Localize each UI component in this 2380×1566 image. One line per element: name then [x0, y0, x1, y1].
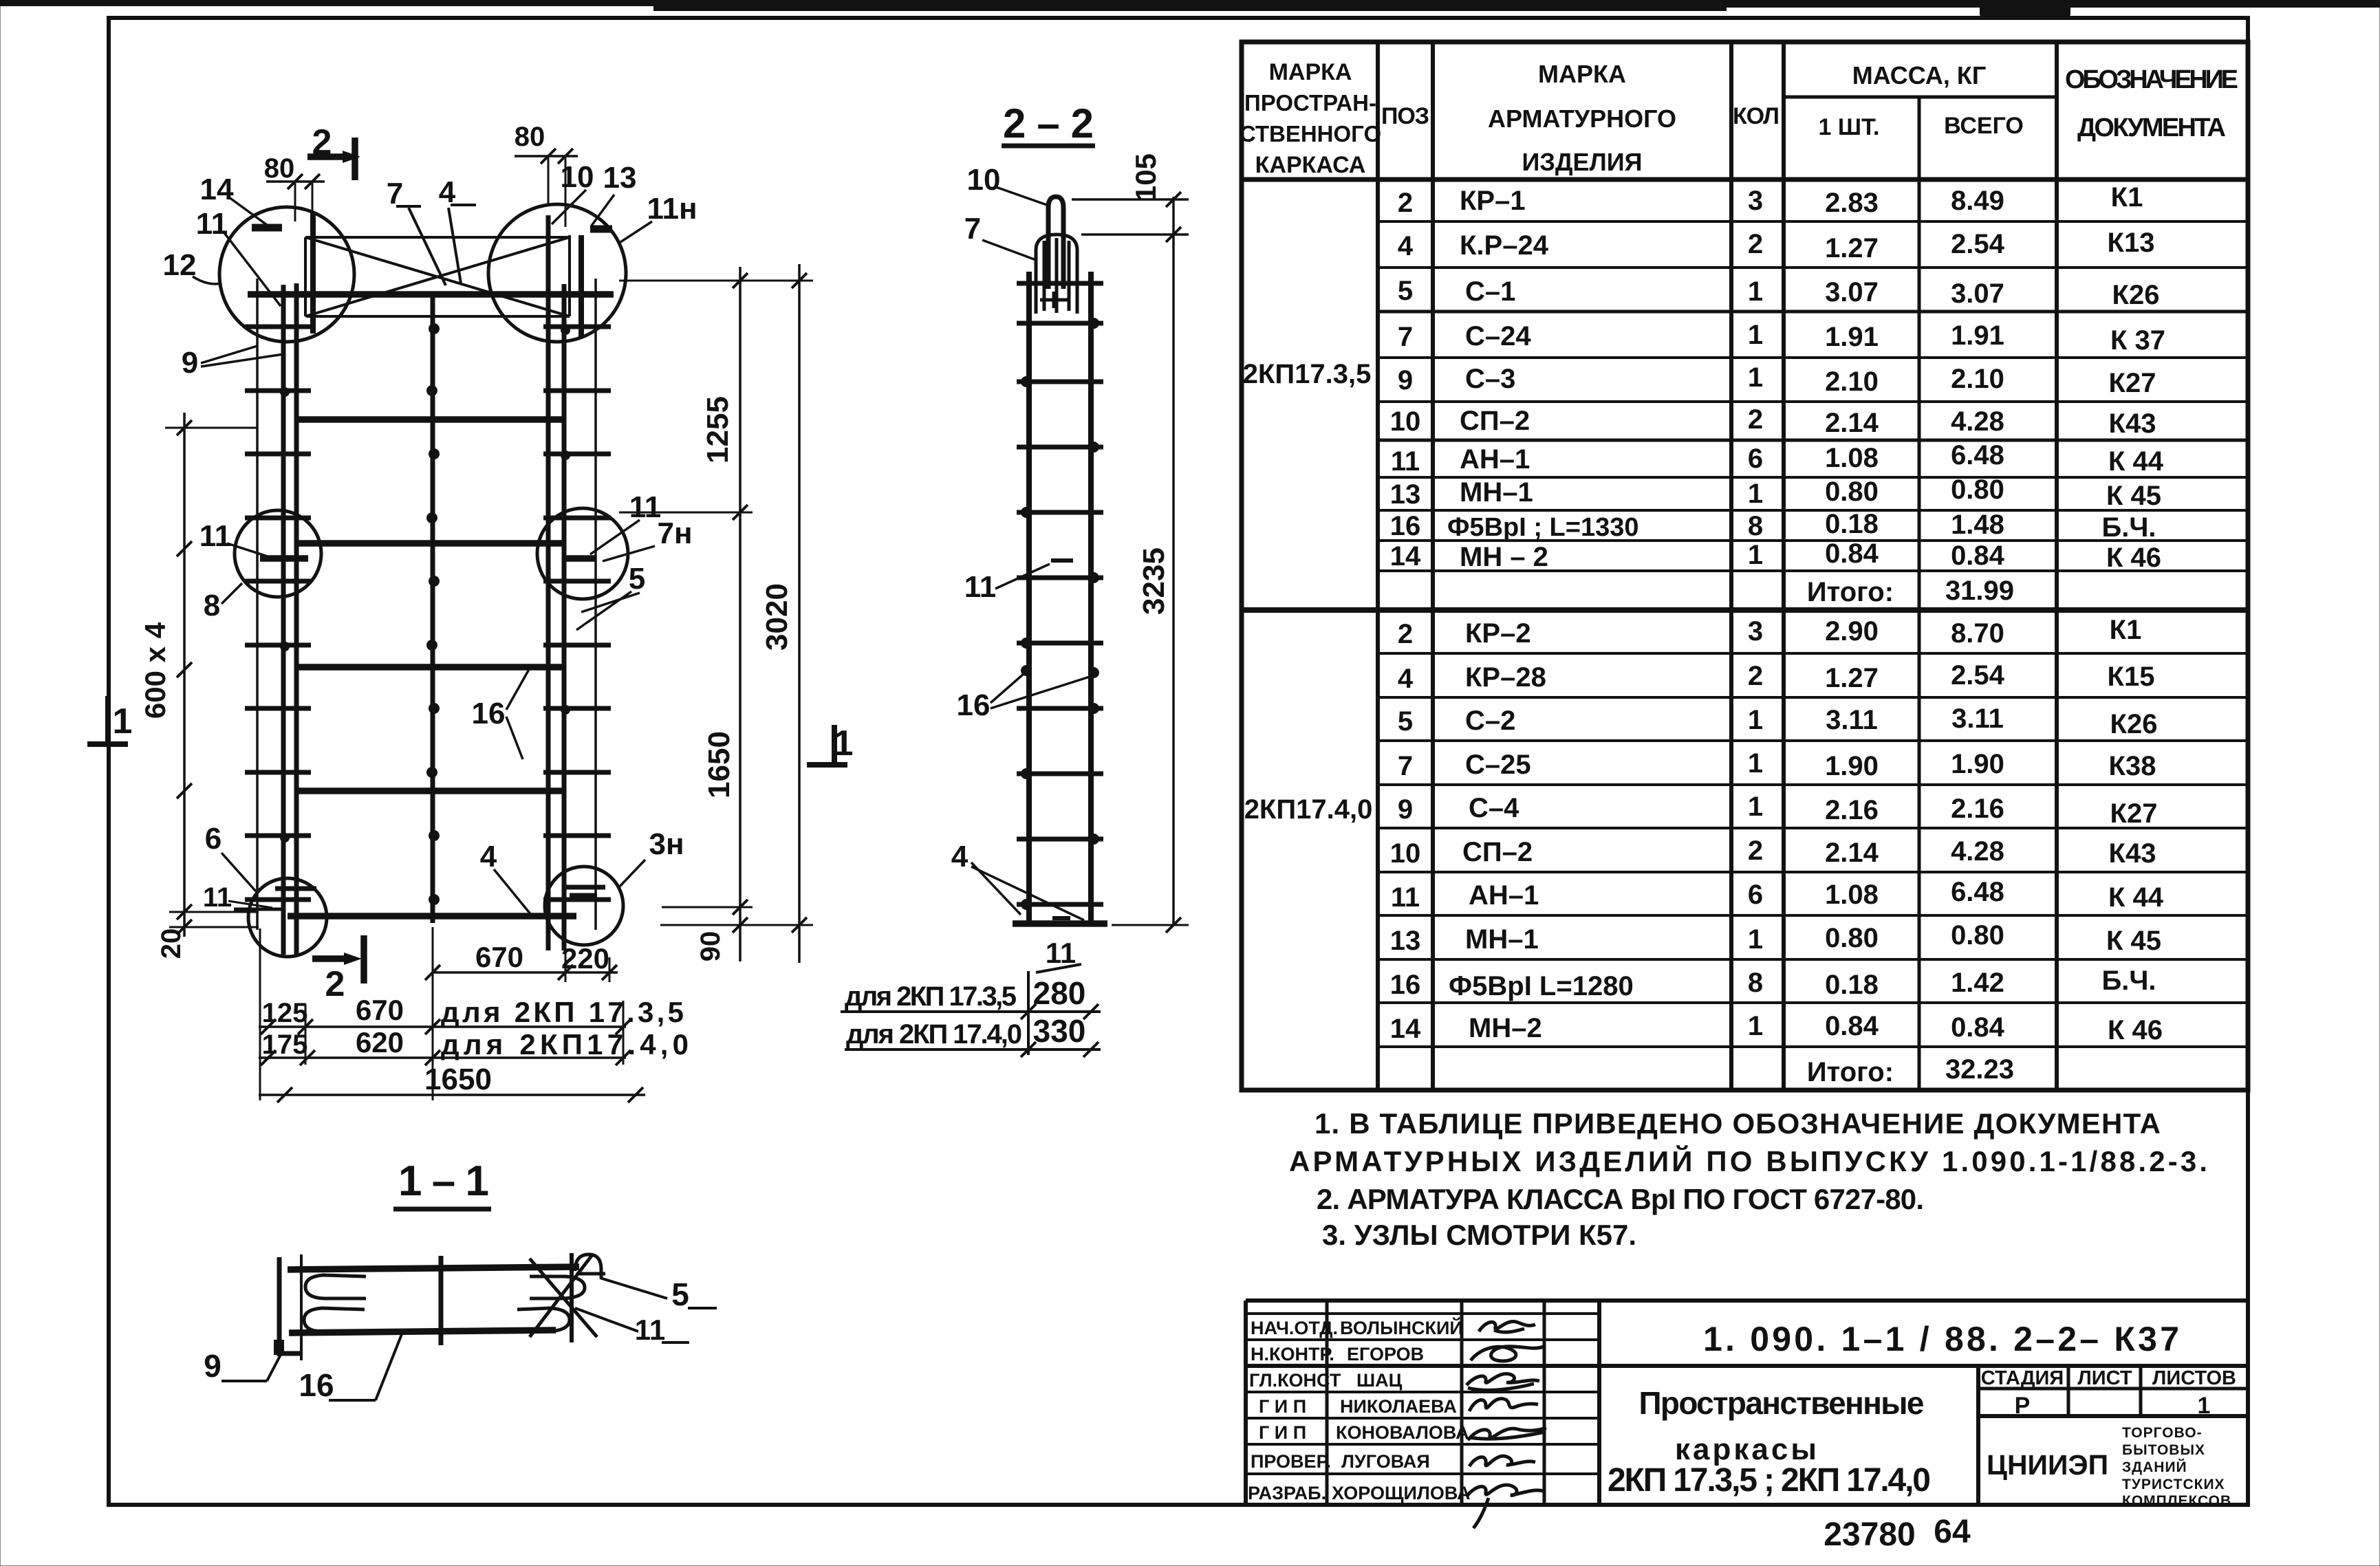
table column line: left of ОБОЗНАЧЕНИЕ	[2055, 42, 2059, 1090]
svg-text:ШАЦ: ШАЦ	[1356, 1370, 1403, 1391]
signatures (scribbles)	[1467, 1322, 1546, 1528]
detail circle bottom-right	[545, 867, 623, 945]
svg-text:3.07: 3.07	[1825, 277, 1879, 307]
svg-text:8: 8	[1748, 968, 1763, 998]
svg-text:2. АРМАТУРА КЛАССА ВрI ПО ГОСТ: 2. АРМАТУРА КЛАССА ВрI ПО ГОСТ 6727-80.	[1317, 1183, 1924, 1215]
svg-text:11: 11	[1046, 937, 1076, 969]
svg-text:5: 5	[671, 1276, 689, 1312]
ladder left rail	[1026, 272, 1032, 925]
left rail bar 1	[281, 285, 286, 955]
svg-text:0.84: 0.84	[1825, 539, 1879, 569]
svg-text:1: 1	[1748, 748, 1763, 779]
title block outer left line	[1244, 1301, 1248, 1505]
svg-text:11: 11	[196, 207, 228, 241]
svg-text:2: 2	[1398, 188, 1413, 218]
svg-text:11: 11	[635, 1314, 665, 1346]
svg-text:10: 10	[1390, 838, 1421, 869]
svg-text:С–1: С–1	[1465, 276, 1515, 307]
svg-text:125: 125	[262, 998, 308, 1028]
svg-text:8: 8	[1748, 511, 1763, 541]
svg-text:С–24: С–24	[1465, 321, 1531, 351]
svg-text:6: 6	[1748, 444, 1763, 474]
ladder right rail	[1088, 272, 1094, 925]
svg-text:0.84: 0.84	[1825, 1011, 1879, 1041]
svg-text:СП–2: СП–2	[1462, 837, 1533, 867]
svg-text:К 37: К 37	[2110, 325, 2165, 356]
svg-text:105: 105	[1129, 153, 1162, 202]
svg-text:2.16: 2.16	[1951, 794, 2004, 824]
svg-text:1: 1	[1748, 320, 1763, 350]
left dimension line 600x4	[183, 413, 186, 937]
leaders 9	[201, 346, 257, 363]
svg-text:2.14: 2.14	[1825, 408, 1879, 438]
institute small text	[2122, 1425, 2231, 1509]
svg-text:для 2КП 17.3,5: для 2КП 17.3,5	[845, 981, 1017, 1012]
svg-text:1650: 1650	[424, 1063, 492, 1096]
svg-text:2: 2	[1748, 404, 1763, 435]
left top short bar	[310, 213, 316, 334]
svg-text:220: 220	[561, 942, 609, 975]
title block role/name texts	[1248, 1317, 1471, 1503]
svg-text:1.91: 1.91	[1951, 320, 2004, 351]
svg-text:для 2КП17.4,0: для 2КП17.4,0	[441, 1028, 689, 1061]
table column line: left of КОЛ	[1729, 42, 1733, 1090]
bottom extension verticals	[259, 928, 261, 1100]
svg-text:для 2КП 17.3,5: для 2КП 17.3,5	[441, 996, 684, 1028]
right X cross	[530, 1259, 597, 1337]
svg-text:2: 2	[1748, 229, 1763, 259]
svg-text:9: 9	[182, 346, 198, 380]
table outer border	[1242, 42, 2248, 1090]
svg-text:ДОКУМЕНТА: ДОКУМЕНТА	[2077, 113, 2226, 142]
leader 11н	[620, 221, 652, 242]
weld dots on central bar	[426, 323, 440, 905]
svg-text:14: 14	[1390, 541, 1421, 572]
svg-text:ВСЕГО: ВСЕГО	[1944, 113, 2024, 139]
svg-text:3.07: 3.07	[1951, 279, 2004, 309]
title block column: signature|date	[1543, 1301, 1546, 1505]
svg-text:К15: К15	[2108, 662, 2155, 692]
svg-text:0.84: 0.84	[1951, 541, 2005, 571]
svg-text:32.23: 32.23	[1945, 1054, 2014, 1085]
svg-text:1255: 1255	[701, 396, 735, 464]
svg-text:11: 11	[629, 490, 662, 524]
svg-text:Итого:: Итого:	[1807, 577, 1894, 607]
right outer thin bar	[594, 279, 597, 930]
svg-text:С–25: С–25	[1465, 750, 1531, 780]
middle cross wire	[439, 1256, 444, 1345]
header bottom line	[1242, 177, 2248, 182]
svg-text:11: 11	[964, 570, 997, 604]
svg-text:20: 20	[156, 928, 186, 959]
svg-text:10: 10	[1390, 406, 1421, 437]
table column line: left of ПОЗ	[1376, 42, 1380, 1090]
svg-text:К13: К13	[2108, 228, 2155, 258]
svg-text:7: 7	[964, 212, 981, 246]
svg-text:2КП17.3,5: 2КП17.3,5	[1243, 359, 1372, 389]
right cross wire	[570, 1253, 574, 1342]
svg-text:9: 9	[1398, 794, 1413, 825]
right rail bar 2	[562, 284, 567, 950]
svg-text:К26: К26	[2110, 709, 2158, 739]
section mark 1 left	[105, 696, 111, 744]
svg-text:АРМАТУРНЫХ ИЗДЕЛИЙ ПО ВЫПУСКУ: АРМАТУРНЫХ ИЗДЕЛИЙ ПО ВЫПУСКУ 1.090.1-1/…	[1289, 1144, 2207, 1177]
svg-text:330: 330	[1033, 1013, 1086, 1049]
svg-text:0.80: 0.80	[1951, 475, 2004, 505]
svg-text:0.84: 0.84	[1951, 1012, 2005, 1043]
svg-text:2–2: 2–2	[1003, 100, 1094, 146]
svg-text:6.48: 6.48	[1951, 877, 2004, 907]
mid-right item dash	[563, 555, 596, 562]
title block column: left part | doc area	[1597, 1301, 1601, 1505]
svg-text:10: 10	[561, 160, 594, 194]
svg-text:Н.КОНТР.: Н.КОНТР.	[1251, 1344, 1334, 1364]
svg-text:Г И П: Г И П	[1259, 1396, 1306, 1417]
left cross wire	[300, 1254, 303, 1360]
svg-text:1. В ТАБЛИЦЕ ПРИВЕДЕНО ОБОЗНАЧ: 1. В ТАБЛИЦЕ ПРИВЕДЕНО ОБОЗНАЧЕНИЕ ДОКУМ…	[1315, 1107, 2161, 1140]
svg-text:КОЛ: КОЛ	[1733, 103, 1779, 129]
svg-text:0.80: 0.80	[1825, 477, 1879, 507]
svg-text:ПОЗ: ПОЗ	[1381, 103, 1429, 129]
label 11 bottom	[1052, 916, 1070, 920]
svg-text:3020: 3020	[760, 583, 794, 651]
dots on rungs	[1021, 318, 1099, 910]
svg-text:2.83: 2.83	[1825, 188, 1879, 218]
item 7 sleeve outline	[1036, 235, 1077, 314]
svg-text:МАРКА: МАРКА	[1269, 59, 1352, 85]
svg-text:1.08: 1.08	[1825, 880, 1879, 910]
svg-text:3н: 3н	[649, 827, 684, 861]
svg-text:1.08: 1.08	[1825, 443, 1879, 473]
svg-text:1: 1	[1748, 924, 1763, 955]
svg-text:1.42: 1.42	[1951, 968, 2004, 998]
svg-text:ЛУГОВАЯ: ЛУГОВАЯ	[1341, 1451, 1430, 1472]
dim row 175 620 для 2КП17.4,0	[259, 1056, 626, 1059]
svg-text:280: 280	[1033, 975, 1086, 1011]
svg-text:7: 7	[1398, 751, 1413, 781]
svg-text:Г И П: Г И П	[1259, 1422, 1306, 1443]
svg-text:СТВЕННОГО: СТВЕННОГО	[1240, 121, 1381, 146]
weld dots on rails	[280, 325, 570, 842]
svg-text:К.Р–24: К.Р–24	[1460, 230, 1549, 261]
svg-text:2.54: 2.54	[1951, 229, 2005, 259]
svg-text:2: 2	[1748, 661, 1763, 691]
right rail bar 1	[546, 215, 551, 950]
leader 10	[552, 190, 586, 224]
right top short bar	[578, 235, 584, 337]
rungs	[1017, 283, 1103, 904]
svg-text:МАССА, КГ: МАССА, КГ	[1852, 61, 1987, 89]
svg-text:5: 5	[1398, 276, 1413, 306]
svg-text:ГЛ.КОНСТ: ГЛ.КОНСТ	[1249, 1370, 1341, 1391]
bottom-right dashes	[564, 885, 605, 890]
svg-text:11н: 11н	[647, 192, 697, 226]
dim row 1650 bottom	[259, 1094, 645, 1096]
group 2 data rows	[1390, 615, 2164, 1087]
svg-text:Р: Р	[2015, 1393, 2031, 1419]
svg-text:ПРОВЕР.: ПРОВЕР.	[1251, 1451, 1331, 1472]
detail circle top-right	[488, 204, 626, 342]
group 1 data rows	[1390, 182, 2165, 607]
title block outer top line	[1246, 1298, 2248, 1303]
svg-text:ЗДАНИЙ: ЗДАНИЙ	[2122, 1459, 2187, 1475]
lifting hook item 10	[1048, 197, 1063, 289]
svg-text:3: 3	[1748, 186, 1763, 216]
svg-text:2: 2	[1748, 836, 1763, 866]
svg-text:9: 9	[1398, 365, 1413, 395]
svg-text:2КП17.4,0: 2КП17.4,0	[1244, 794, 1373, 825]
svg-text:0.80: 0.80	[1825, 923, 1879, 953]
svg-text:13: 13	[1390, 926, 1421, 956]
dim 105 extension lines	[1072, 198, 1189, 201]
svg-text:ЛИСТОВ: ЛИСТОВ	[2152, 1367, 2236, 1389]
left hook upper	[305, 1275, 366, 1298]
svg-text:МН–1: МН–1	[1465, 924, 1539, 955]
group 1 row lines	[1242, 221, 2248, 610]
svg-text:64: 64	[1934, 1514, 1971, 1550]
svg-text:12: 12	[163, 248, 197, 282]
mid-left item dash	[260, 555, 308, 562]
svg-text:1: 1	[1748, 479, 1763, 509]
X bracing diagonals	[305, 237, 570, 316]
svg-text:2КП 17.3,5 ; 2КП 17.4,0: 2КП 17.3,5 ; 2КП 17.4,0	[1608, 1462, 1931, 1499]
svg-text:80: 80	[515, 122, 545, 152]
left outer thin bar	[256, 279, 259, 930]
svg-text:СТАДИЯ: СТАДИЯ	[1981, 1367, 2064, 1389]
table column line: left of МАРКА АРМАТУРНОГО	[1431, 42, 1435, 1090]
small cross mark	[1040, 298, 1068, 302]
svg-text:6.48: 6.48	[1951, 440, 2004, 470]
svg-text:К1: К1	[2110, 615, 2142, 645]
svg-text:С–3: С–3	[1465, 364, 1515, 394]
title block row lines	[1246, 1312, 1599, 1315]
ladder bottom bar	[1013, 920, 1107, 927]
svg-text:КР–2: КР–2	[1465, 618, 1531, 649]
svg-text:К 44: К 44	[2108, 446, 2164, 477]
svg-text:1: 1	[1748, 276, 1763, 307]
svg-text:1: 1	[1748, 792, 1763, 822]
svg-text:КАРКАСА: КАРКАСА	[1255, 152, 1366, 178]
svg-text:16: 16	[957, 688, 991, 722]
svg-text:1: 1	[113, 702, 133, 741]
svg-text:670: 670	[356, 994, 404, 1026]
leader diagonals from 7 and 4	[409, 208, 446, 285]
svg-text:11: 11	[1391, 882, 1420, 913]
svg-text:1.27: 1.27	[1825, 233, 1879, 263]
detail circle mid-right	[537, 508, 628, 599]
right top curl	[575, 1254, 601, 1278]
table column line: left of МАССА	[1782, 42, 1786, 1090]
svg-text:К 45: К 45	[2106, 481, 2161, 511]
svg-text:РАЗРАБ.: РАЗРАБ.	[1248, 1483, 1326, 1503]
svg-text:3. УЗЛЫ СМОТРИ К57.: 3. УЗЛЫ СМОТРИ К57.	[1322, 1219, 1636, 1251]
svg-text:670: 670	[475, 941, 523, 973]
svg-text:0.80: 0.80	[1951, 920, 2004, 950]
svg-text:МАРКА: МАРКА	[1538, 60, 1626, 88]
svg-text:175: 175	[262, 1030, 308, 1060]
svg-text:К 44: К 44	[2108, 882, 2164, 913]
svg-text:1.91: 1.91	[1825, 322, 1879, 352]
svg-text:К27: К27	[2110, 798, 2158, 829]
svg-text:3: 3	[1748, 616, 1763, 646]
left rail bar 2	[294, 283, 299, 955]
svg-text:13: 13	[1390, 479, 1421, 510]
svg-text:Б.Ч.: Б.Ч.	[2101, 966, 2156, 996]
svg-text:К 45: К 45	[2106, 926, 2161, 956]
dim row 670/220	[433, 971, 618, 974]
svg-text:1: 1	[1748, 540, 1763, 570]
svg-text:10: 10	[967, 163, 1001, 197]
notes below table	[1289, 1107, 2207, 1251]
svg-text:14: 14	[200, 173, 234, 206]
svg-text:ОБОЗНАЧЕНИЕ: ОБОЗНАЧЕНИЕ	[2065, 65, 2238, 94]
svg-text:МН – 2: МН – 2	[1460, 542, 1548, 572]
group divider thick line	[1242, 607, 2248, 613]
bottom longitudinal bar	[289, 1330, 556, 1333]
group 2 row lines	[1378, 653, 2248, 1047]
svg-text:23780: 23780	[1824, 1516, 1915, 1553]
left end plate	[277, 1257, 282, 1356]
svg-text:НИКОЛАЕВА: НИКОЛАЕВА	[1340, 1396, 1457, 1417]
svg-text:К43: К43	[2109, 838, 2156, 869]
right hook upper	[530, 1276, 585, 1298]
svg-text:ЦНИИЭП: ЦНИИЭП	[1987, 1449, 2108, 1481]
svg-text:0.18: 0.18	[1825, 509, 1879, 539]
svg-text:1: 1	[1748, 1011, 1763, 1041]
top longitudinal bar	[288, 1267, 579, 1270]
svg-text:2.16: 2.16	[1825, 795, 1879, 825]
svg-text:Итого:: Итого:	[1807, 1057, 1894, 1087]
svg-text:АН–1: АН–1	[1460, 444, 1530, 475]
svg-text:2.14: 2.14	[1825, 838, 1879, 868]
svg-text:7н: 7н	[657, 516, 692, 550]
svg-text:С–4: С–4	[1469, 793, 1519, 823]
svg-text:1–1: 1–1	[398, 1157, 489, 1205]
svg-text:4: 4	[1398, 664, 1414, 694]
rung ticks left rail	[245, 327, 311, 900]
detail circle bottom-left	[248, 878, 327, 957]
svg-text:К 46: К 46	[2106, 543, 2161, 573]
left hook lower	[304, 1308, 365, 1331]
svg-text:АРМАТУРНОГО: АРМАТУРНОГО	[1488, 105, 1676, 133]
МАССА КГ sub-divider	[1784, 96, 2057, 99]
svg-text:11: 11	[1391, 446, 1420, 477]
svg-text:К 46: К 46	[2108, 1015, 2163, 1045]
svg-text:1.90: 1.90	[1951, 749, 2004, 779]
svg-text:13: 13	[603, 161, 637, 195]
svg-text:БЫТОВЫХ: БЫТОВЫХ	[2122, 1442, 2205, 1458]
svg-text:1650: 1650	[702, 731, 736, 798]
svg-text:2: 2	[325, 964, 345, 1004]
svg-text:1.48: 1.48	[1951, 510, 2004, 540]
svg-text:МН–1: МН–1	[1460, 477, 1533, 508]
svg-text:Ф5ВрI ; L=1330: Ф5ВрI ; L=1330	[1447, 513, 1639, 542]
svg-text:4.28: 4.28	[1951, 836, 2004, 867]
svg-text:31.99: 31.99	[1945, 576, 2014, 606]
svg-text:3235: 3235	[1137, 547, 1171, 615]
svg-text:С–2: С–2	[1465, 706, 1515, 736]
right inner dimension line	[739, 267, 742, 961]
svg-text:16: 16	[299, 1367, 334, 1403]
svg-text:6: 6	[1748, 880, 1763, 910]
svg-text:5: 5	[1398, 706, 1413, 737]
item 13 dash	[590, 226, 612, 233]
svg-text:1.90: 1.90	[1825, 751, 1879, 781]
svg-text:КОМПЛЕКСОВ: КОМПЛЕКСОВ	[2122, 1493, 2231, 1509]
central longitudinal bar	[431, 294, 435, 923]
svg-text:0.18: 0.18	[1825, 970, 1879, 1000]
svg-text:2: 2	[1398, 619, 1413, 649]
svg-text:Пространственные: Пространственные	[1639, 1385, 1925, 1421]
svg-text:600 х 4: 600 х 4	[139, 622, 171, 719]
bottom dim rows 2-2	[841, 1010, 1101, 1013]
svg-text:90: 90	[695, 931, 726, 962]
СТАДИЯ block column lines	[1976, 1366, 1980, 1505]
svg-text:ТОРГОВО-: ТОРГОВО-	[2122, 1425, 2203, 1441]
scan edge bar top	[0, 0, 2380, 6]
svg-text:ПРОСТРАН-: ПРОСТРАН-	[1244, 90, 1376, 116]
extension lines right	[619, 280, 813, 282]
svg-text:2.10: 2.10	[1951, 364, 2004, 394]
svg-text:8: 8	[204, 589, 220, 622]
svg-text:ЛИСТ: ЛИСТ	[2077, 1367, 2132, 1389]
svg-text:4: 4	[951, 840, 969, 873]
title block column: name|signature	[1460, 1301, 1464, 1505]
svg-text:К1: К1	[2111, 182, 2143, 213]
svg-text:ИЗДЕЛИЯ: ИЗДЕЛИЯ	[1522, 148, 1642, 176]
svg-text:Ф5ВрI L=1280: Ф5ВрI L=1280	[1449, 971, 1634, 1001]
rung ticks right rail	[543, 327, 611, 900]
svg-text:К26: К26	[2112, 280, 2160, 310]
detail circle top-left	[219, 207, 354, 342]
svg-text:9: 9	[204, 1348, 221, 1384]
svg-text:КР–1: КР–1	[1460, 186, 1526, 216]
svg-text:4: 4	[1398, 231, 1414, 261]
svg-text:620: 620	[356, 1026, 404, 1058]
svg-text:СП–2: СП–2	[1460, 406, 1530, 436]
svg-text:2.90: 2.90	[1825, 616, 1879, 646]
svg-text:4.28: 4.28	[1951, 406, 2004, 437]
svg-text:11: 11	[203, 882, 232, 913]
svg-text:3.11: 3.11	[1951, 704, 2004, 734]
svg-text:ТУРИСТСКИХ: ТУРИСТСКИХ	[2122, 1477, 2225, 1492]
svg-text:КР–28: КР–28	[1465, 662, 1546, 693]
leader 11 TL	[223, 231, 281, 306]
crossbar rows (thick)	[248, 291, 614, 298]
svg-text:1: 1	[834, 724, 854, 763]
svg-text:ХОРОЩИЛОВА: ХОРОЩИЛОВА	[1332, 1483, 1471, 1503]
detail circle mid-left	[235, 510, 321, 597]
svg-text:16: 16	[1390, 970, 1421, 1000]
svg-text:К27: К27	[2109, 368, 2156, 398]
svg-text:для 2КП 17.4,0: для 2КП 17.4,0	[846, 1019, 1022, 1050]
svg-text:7: 7	[1398, 322, 1413, 352]
svg-text:8.49: 8.49	[1951, 186, 2004, 216]
svg-text:2.10: 2.10	[1825, 367, 1879, 397]
svg-text:каркасы: каркасы	[1675, 1433, 1819, 1466]
svg-text:8.70: 8.70	[1951, 618, 2004, 649]
svg-text:К38: К38	[2109, 751, 2156, 781]
svg-text:МН–2: МН–2	[1469, 1013, 1542, 1043]
svg-text:Б.Ч.: Б.Ч.	[2101, 512, 2156, 543]
item 7 inner bars	[1043, 241, 1046, 311]
section mark 1 right	[832, 725, 837, 765]
svg-text:1. 090. 1–1 / 88. 2–2– К37: 1. 090. 1–1 / 88. 2–2– К37	[1703, 1320, 2179, 1358]
svg-text:КОНОВАЛОВА: КОНОВАЛОВА	[1336, 1422, 1469, 1443]
title block column: role|name	[1326, 1301, 1329, 1505]
right hook lower	[516, 1308, 570, 1331]
svg-text:3.11: 3.11	[1826, 705, 1878, 735]
